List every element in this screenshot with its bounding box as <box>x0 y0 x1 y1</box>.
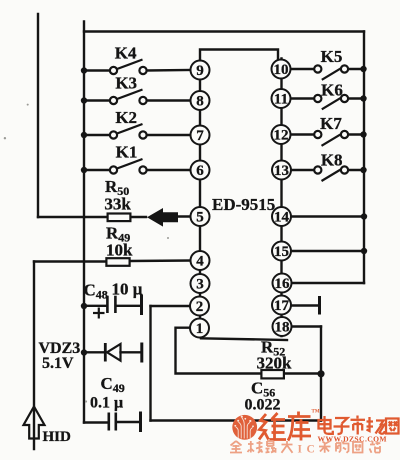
pin 2 <box>190 297 209 316</box>
wire: pin 1 left loop <box>176 328 262 374</box>
junction dot: bus/K4 <box>81 67 87 73</box>
wire: R50 row horizontal from left line to resistor <box>38 216 107 218</box>
capacitor C49 plates <box>109 413 116 431</box>
svg-text:13: 13 <box>274 163 289 179</box>
wire: pin 12 row to K7 <box>291 133 314 135</box>
watermark: character chang <box>367 417 386 434</box>
svg-text:2: 2 <box>196 299 204 315</box>
slogan char quan <box>230 441 242 453</box>
touch terminal bar at C49 <box>139 413 142 431</box>
wire: pin 10 row to K5 <box>291 68 314 70</box>
svg-text:K5: K5 <box>321 47 343 66</box>
wire: K3 row from bus to pin 8 <box>84 99 109 101</box>
IC body: left pin column line <box>199 61 201 338</box>
svg-text:K6: K6 <box>321 81 343 100</box>
svg-text:5: 5 <box>196 210 204 226</box>
switch K3 <box>110 90 147 105</box>
svg-text:K4: K4 <box>115 44 137 63</box>
pin 1 <box>190 319 209 338</box>
HID input arrow <box>24 407 45 439</box>
wire: right rail vertical <box>363 32 365 284</box>
switch K8 <box>314 166 348 181</box>
svg-text:7: 7 <box>196 128 204 144</box>
pin 10 <box>272 60 291 79</box>
wire: C48 row lead from bus <box>84 305 106 307</box>
wire: R49 row from HID line to resistor <box>34 260 107 262</box>
slogan char cai <box>319 441 331 453</box>
svg-text:15: 15 <box>274 244 289 260</box>
svg-text:10 μ: 10 μ <box>112 280 143 299</box>
switch K5 <box>314 65 348 79</box>
watermark: character wang <box>386 419 399 434</box>
svg-text:K3: K3 <box>115 73 137 92</box>
pin 13 <box>272 161 291 180</box>
svg-text:16: 16 <box>275 276 291 292</box>
wire: pin 14 row to right rail <box>291 215 365 217</box>
wire: R49 right lead to pin 4 <box>131 259 192 262</box>
switch K1 <box>110 159 147 174</box>
svg-text:320k: 320k <box>257 354 293 373</box>
svg-text:TM: TM <box>312 410 320 415</box>
junction dot: bus/K2 <box>81 132 87 138</box>
slogan char zui <box>266 441 276 453</box>
svg-text:1: 1 <box>196 321 204 337</box>
zener diode VDZ3 <box>105 343 120 362</box>
svg-text:12: 12 <box>274 128 289 144</box>
pin 8 <box>191 91 210 110</box>
resistor R50 33k <box>108 214 131 222</box>
svg-text:0.1 μ: 0.1 μ <box>90 395 123 412</box>
pin 15 <box>272 242 291 261</box>
slogan char qiu <box>248 441 263 453</box>
slogan char da <box>282 441 293 453</box>
watermark: big character wei <box>259 413 286 440</box>
switch K4 <box>110 60 147 75</box>
svg-text:3: 3 <box>196 277 204 293</box>
junction dot: bus/VDZ3 <box>81 349 87 355</box>
wire: R52 right lead to junction <box>284 372 321 374</box>
junction dot: rail/K7 <box>360 131 366 137</box>
junction dot: bus/K3 <box>81 97 87 103</box>
junction dot: rail/pin15 <box>361 248 367 254</box>
junction dot: R52/pin18 drop <box>317 370 324 377</box>
pin 16 <box>273 274 292 293</box>
svg-text:10: 10 <box>274 62 289 78</box>
pin 9 <box>191 61 210 80</box>
wire: C49 row lead from bus corner <box>84 421 108 423</box>
wire: pin 18 row to right drop <box>291 325 322 327</box>
selection arrow pointing at R50 <box>147 208 178 227</box>
svg-text:6: 6 <box>196 163 204 179</box>
pin 18 <box>273 317 292 336</box>
wire: left outer vertical (top feed to R50) <box>37 14 39 217</box>
junction dot: bus/K1 <box>81 167 87 173</box>
pin 5 <box>191 207 210 226</box>
wire: HID vertical line <box>33 262 35 450</box>
svg-text:ED-9515: ED-9515 <box>212 195 275 214</box>
wire: pin 1 bottom link to pin 18 <box>201 338 287 340</box>
wire: pin 17 row to touch terminal <box>291 304 318 306</box>
junction dot: rail/K6 <box>360 95 366 101</box>
wire: pin 13 row to K8 <box>291 169 314 171</box>
pin 12 <box>272 125 291 144</box>
svg-text:C49: C49 <box>101 374 125 395</box>
svg-text:33k: 33k <box>104 195 131 214</box>
IC body: right pin column line <box>280 59 282 337</box>
wire: left supply bus vertical <box>83 22 85 423</box>
watermark: character dian <box>319 416 333 434</box>
wire: C48 to touch terminal <box>117 305 141 307</box>
svg-text:HID: HID <box>43 429 72 445</box>
svg-text:K7: K7 <box>320 114 342 133</box>
svg-text:14: 14 <box>274 210 290 226</box>
svg-text:0.022: 0.022 <box>245 397 281 414</box>
pin 14 <box>272 207 291 226</box>
svg-text:K8: K8 <box>321 151 343 170</box>
wire: arrow tail to pin 5 <box>177 215 191 217</box>
svg-text:K2: K2 <box>115 108 137 127</box>
scan speckle dots <box>4 104 169 403</box>
wire: pin 16 row to right rail <box>291 282 365 284</box>
svg-text:18: 18 <box>275 320 290 336</box>
slogan char zhan <box>370 441 381 453</box>
wire: K1 row from bus to pin 6 <box>84 169 109 171</box>
capacitor C48 plates <box>107 296 115 313</box>
junction dot: bus/C48 <box>81 303 87 309</box>
svg-text:C48: C48 <box>84 281 108 302</box>
IC pin circles <box>190 60 292 338</box>
svg-text:5.1V: 5.1V <box>42 355 74 372</box>
pin 7 <box>191 126 210 145</box>
wire: pin 2 to left drop <box>151 305 191 307</box>
wire: K4 row from bus to pin 9 <box>84 69 109 71</box>
resistor R49 10k <box>106 258 129 266</box>
junction dot: rail/K5 <box>360 66 366 72</box>
watermark: dzsc.com logo circle <box>232 415 257 440</box>
junction dot: rail/pin14 <box>361 213 367 219</box>
slogan char wang2 <box>353 442 363 453</box>
wire: R50 right lead segment to arrow <box>131 216 147 218</box>
IC body: top bracket joining pin 9 and pin 10 <box>200 50 278 61</box>
C48 polarity plus sign <box>93 308 105 319</box>
resistor R52 320k <box>261 370 284 378</box>
touch terminal bar at VDZ3 <box>140 344 143 361</box>
wire: top rail horizontal <box>84 30 364 32</box>
wire: pin 11 row to K6 <box>291 97 314 99</box>
svg-text:K1: K1 <box>116 142 138 161</box>
switch K2 <box>110 124 147 139</box>
watermark: bottom slogan row <box>230 441 293 453</box>
wire: zener VDZ3 lead from bus <box>84 351 104 353</box>
touch terminal bar at pin 17 <box>318 298 321 314</box>
svg-text:9: 9 <box>196 63 204 79</box>
svg-text:11: 11 <box>274 92 288 108</box>
pin 4 <box>191 251 210 270</box>
watermark: character zi <box>334 418 350 434</box>
watermark: big character ku <box>288 412 311 441</box>
wire: bottom rail <box>151 419 322 421</box>
wire: pin 2 drop vertical <box>149 306 151 421</box>
svg-text:8: 8 <box>196 94 204 110</box>
svg-text:10k: 10k <box>106 241 133 260</box>
svg-text:4: 4 <box>196 254 204 270</box>
slogan char gou <box>336 441 349 453</box>
pin 3 <box>191 274 210 293</box>
touch terminal bar at C48 <box>140 296 143 314</box>
wire: K2 row from bus to pin 7 <box>84 134 109 136</box>
pin 6 <box>191 161 210 180</box>
svg-text:IC: IC <box>298 444 320 456</box>
pin 17 <box>272 296 291 315</box>
watermark: character shi <box>351 416 366 435</box>
svg-text:17: 17 <box>274 298 290 314</box>
wire: pin 15 row to right rail <box>291 250 365 252</box>
wire: right drop from pin 18 to bottom rail <box>320 327 322 421</box>
pin 11 <box>272 89 291 108</box>
switch K7 <box>314 131 348 146</box>
pin number labels <box>196 62 290 337</box>
wire: zener cathode to touch terminal <box>121 351 141 353</box>
junction dot: rail/K8 <box>360 167 366 173</box>
wire: C49 to touch terminal <box>117 421 140 423</box>
switch K6 <box>314 95 348 109</box>
